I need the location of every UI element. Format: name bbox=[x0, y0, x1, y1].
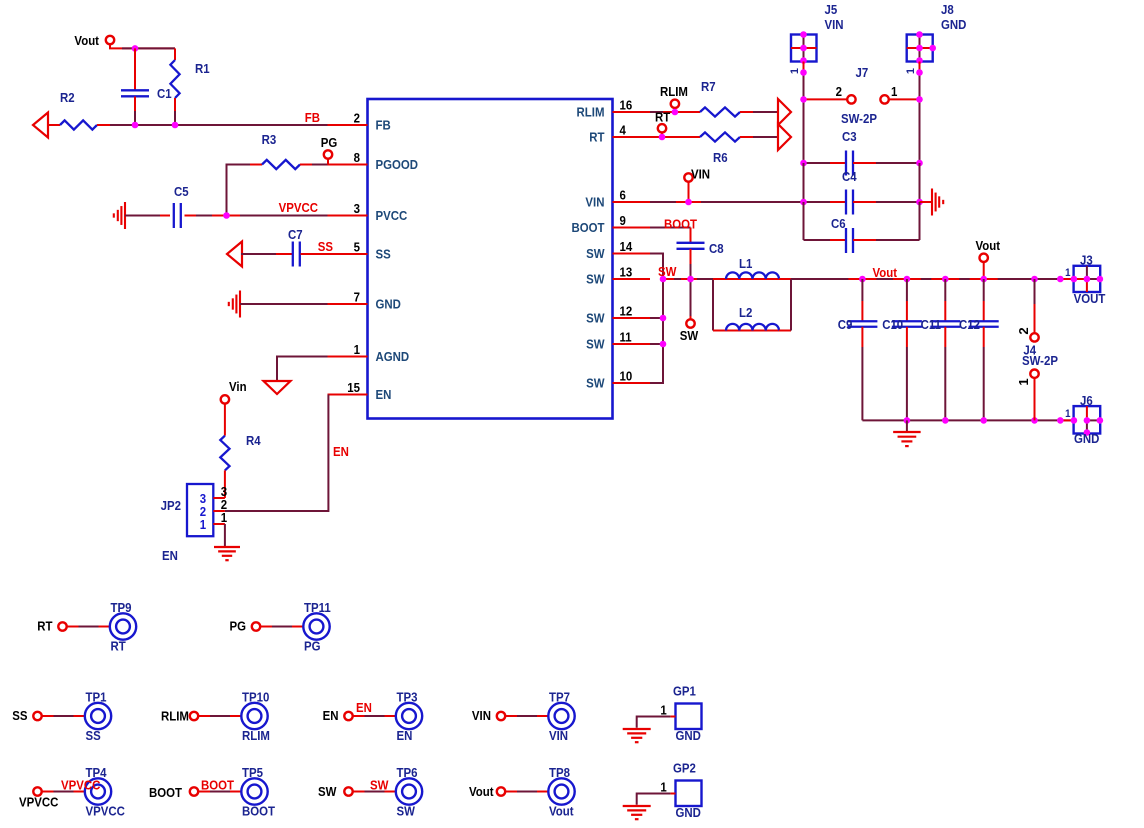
svg-text:SS: SS bbox=[86, 728, 101, 743]
off-page connector FB left bbox=[33, 113, 48, 138]
svg-text:VIN: VIN bbox=[472, 708, 491, 723]
wire gnd to C5 bbox=[125, 215, 160, 217]
svg-text:SW: SW bbox=[658, 264, 677, 279]
svg-text:GND: GND bbox=[1074, 431, 1100, 446]
capacitor C8 bbox=[677, 242, 705, 244]
node bus J4 bbox=[1031, 417, 1038, 424]
pin 5 SS stub bbox=[328, 253, 368, 255]
connector JP2 body bbox=[187, 484, 213, 536]
svg-text:TP7: TP7 bbox=[549, 690, 570, 705]
svg-text:SW: SW bbox=[586, 272, 605, 287]
svg-text:J3: J3 bbox=[1080, 253, 1093, 268]
wire J8 down bbox=[919, 62, 921, 71]
svg-text:SW: SW bbox=[680, 328, 699, 343]
svg-text:VIN: VIN bbox=[824, 17, 843, 32]
JP2 pin 3 bbox=[213, 497, 225, 499]
svg-text:JP2: JP2 bbox=[161, 498, 182, 513]
svg-text:C3: C3 bbox=[842, 129, 857, 144]
ground GP2 bbox=[623, 805, 651, 807]
JP2 pin 2 bbox=[213, 510, 225, 512]
pin 12 SW stub bbox=[613, 317, 651, 319]
JP2 pin 1 bbox=[213, 523, 225, 525]
svg-text:11: 11 bbox=[620, 330, 632, 345]
svg-text:R7: R7 bbox=[701, 79, 716, 94]
svg-text:C11: C11 bbox=[921, 317, 942, 332]
svg-text:RT: RT bbox=[111, 639, 127, 654]
svg-text:SW: SW bbox=[318, 784, 337, 799]
node bus C12 bbox=[980, 417, 987, 424]
pin 9 BOOT stub bbox=[613, 227, 651, 229]
node bus C11 bbox=[942, 417, 949, 424]
test point TP9 bbox=[110, 613, 136, 639]
test point TP10 bbox=[241, 703, 267, 729]
test point TP6 bbox=[396, 778, 422, 804]
svg-text:VIN: VIN bbox=[691, 167, 710, 182]
svg-text:1: 1 bbox=[1065, 409, 1071, 421]
svg-text:Vin: Vin bbox=[229, 379, 247, 394]
svg-text:PGOOD: PGOOD bbox=[375, 157, 418, 172]
svg-text:RLIM: RLIM bbox=[161, 709, 189, 724]
svg-text:8: 8 bbox=[354, 150, 361, 165]
node SW pin13 bbox=[660, 276, 667, 283]
svg-text:VPVCC: VPVCC bbox=[279, 200, 319, 215]
wire J5 col C3-C4 bbox=[803, 163, 805, 202]
jumper J4 pin 2 bbox=[1034, 279, 1036, 304]
svg-text:1: 1 bbox=[200, 517, 207, 532]
off-page connector R6 arrow bbox=[778, 124, 791, 150]
svg-text:GND: GND bbox=[675, 728, 701, 743]
test point TP8 bbox=[548, 778, 574, 804]
node VIN junction bbox=[685, 199, 692, 206]
jumper J7 pin 1 bbox=[880, 95, 888, 103]
svg-text:SS: SS bbox=[375, 247, 390, 262]
svg-text:TP5: TP5 bbox=[242, 765, 263, 780]
svg-text:PG: PG bbox=[304, 639, 321, 654]
svg-text:J6: J6 bbox=[1080, 393, 1093, 408]
terminal PG bbox=[324, 150, 332, 158]
wire to TP7 bbox=[505, 715, 517, 717]
resistor R2 bbox=[48, 124, 60, 126]
svg-text:BOOT: BOOT bbox=[201, 778, 235, 793]
svg-text:EN: EN bbox=[333, 444, 349, 459]
svg-text:15: 15 bbox=[347, 380, 360, 395]
svg-text:C4: C4 bbox=[842, 169, 857, 184]
header GP1 bbox=[676, 704, 702, 730]
svg-text:VOUT: VOUT bbox=[1074, 291, 1106, 306]
terminal Vout right bbox=[980, 254, 988, 262]
wire AGND bbox=[277, 357, 328, 382]
svg-text:C12: C12 bbox=[959, 317, 980, 332]
svg-text:C8: C8 bbox=[709, 241, 724, 256]
pin 14 SW stub bbox=[613, 253, 651, 255]
capacitor C7 bbox=[276, 253, 292, 255]
svg-text:Vout: Vout bbox=[975, 238, 1000, 253]
svg-text:EN: EN bbox=[397, 728, 413, 743]
wire JP2 pin1 to ground bbox=[224, 524, 226, 547]
svg-text:SW-2P: SW-2P bbox=[841, 111, 877, 126]
node rail J3 stub bbox=[1057, 276, 1064, 283]
svg-text:SW: SW bbox=[586, 337, 605, 352]
svg-text:RT: RT bbox=[37, 619, 53, 634]
svg-text:RLIM: RLIM bbox=[242, 728, 270, 743]
IC U1 body bbox=[368, 99, 613, 419]
resistor R4 bbox=[224, 403, 226, 435]
wire SW net pin13 bbox=[663, 278, 674, 280]
node SW C8 bbox=[687, 276, 694, 283]
capacitor C11 bbox=[944, 279, 946, 301]
svg-text:SS: SS bbox=[12, 708, 27, 723]
svg-text:GND: GND bbox=[375, 297, 401, 312]
svg-text:VIN: VIN bbox=[585, 195, 604, 210]
node FB junction C1 bbox=[132, 122, 139, 129]
svg-text:12: 12 bbox=[620, 304, 633, 319]
wire to C7 bbox=[241, 253, 276, 255]
resistor R3 bbox=[250, 164, 262, 166]
node rail J4 bbox=[1031, 276, 1038, 283]
node C1 top bbox=[132, 45, 139, 52]
node rail C9 bbox=[859, 276, 866, 283]
capacitor C6 bbox=[803, 202, 805, 240]
svg-text:1: 1 bbox=[660, 780, 667, 795]
terminal RLIM bbox=[671, 100, 679, 108]
header J5 bbox=[791, 35, 817, 62]
node bus C10 bbox=[904, 417, 911, 424]
wire to TP1 bbox=[42, 715, 54, 717]
svg-text:4: 4 bbox=[620, 123, 627, 138]
svg-text:C6: C6 bbox=[831, 216, 846, 231]
svg-text:R6: R6 bbox=[713, 150, 728, 165]
wire to TP11 bbox=[260, 626, 272, 628]
svg-text:J7: J7 bbox=[856, 65, 869, 80]
svg-text:SW: SW bbox=[370, 778, 389, 793]
wire EN net bbox=[328, 394, 367, 396]
wire GP1 to ground bbox=[670, 716, 675, 718]
svg-text:2: 2 bbox=[1016, 327, 1031, 334]
ground GP1 bbox=[623, 728, 651, 730]
pin 15 EN stub bbox=[328, 394, 368, 396]
svg-text:BOOT: BOOT bbox=[149, 785, 183, 800]
pin 3 PVCC stub bbox=[328, 215, 368, 217]
node VPVCC junction bbox=[223, 212, 230, 219]
wire L bracket left bbox=[712, 279, 714, 331]
capacitor C12 bbox=[983, 279, 985, 301]
off-page connector SS bbox=[227, 242, 242, 267]
header J8 bbox=[907, 35, 933, 62]
svg-text:BOOT: BOOT bbox=[242, 804, 276, 819]
wire Vout rail bbox=[791, 278, 1074, 280]
svg-text:13: 13 bbox=[620, 265, 633, 280]
svg-text:1: 1 bbox=[221, 510, 228, 525]
svg-text:1: 1 bbox=[1065, 268, 1071, 280]
pin 8 PGOOD stub bbox=[328, 164, 368, 166]
svg-text:5: 5 bbox=[354, 240, 361, 255]
wire BOOT bbox=[650, 227, 691, 229]
resistor R6 bbox=[700, 132, 740, 141]
test point TP3 bbox=[396, 703, 422, 729]
wire GP2 to ground bbox=[670, 793, 675, 795]
capacitor C10 bbox=[906, 279, 908, 301]
node rail C12 bbox=[980, 276, 987, 283]
svg-text:C9: C9 bbox=[838, 317, 853, 332]
pin 6 VIN stub bbox=[613, 201, 651, 203]
svg-text:SW: SW bbox=[586, 311, 605, 326]
wire Vout to C1/R1 bbox=[110, 44, 175, 48]
svg-text:EN: EN bbox=[323, 708, 339, 723]
svg-text:R3: R3 bbox=[262, 132, 277, 147]
inductor L1 bbox=[713, 278, 726, 280]
svg-text:C7: C7 bbox=[288, 227, 303, 242]
svg-text:1: 1 bbox=[891, 84, 898, 99]
test point TP4 bbox=[85, 778, 111, 804]
node rail C11 bbox=[942, 276, 949, 283]
svg-text:16: 16 bbox=[620, 98, 633, 113]
svg-text:R2: R2 bbox=[60, 90, 75, 105]
test point TP11 bbox=[303, 613, 329, 639]
header J6 bbox=[1074, 406, 1101, 433]
terminal RT bbox=[658, 124, 666, 132]
ground at bus bbox=[906, 420, 908, 432]
svg-text:SW-2P: SW-2P bbox=[1022, 353, 1058, 368]
svg-text:2: 2 bbox=[836, 84, 843, 99]
svg-text:1: 1 bbox=[905, 68, 917, 74]
terminal SW below C8 bbox=[690, 279, 692, 316]
svg-text:C5: C5 bbox=[174, 184, 189, 199]
svg-text:9: 9 bbox=[620, 213, 627, 228]
svg-text:FB: FB bbox=[375, 118, 390, 133]
wire PGOOD to R3 bbox=[227, 165, 251, 216]
svg-text:FB: FB bbox=[305, 110, 320, 125]
test point TP1 bbox=[85, 703, 111, 729]
wire RT bbox=[650, 136, 700, 138]
svg-text:L1: L1 bbox=[739, 256, 753, 271]
svg-text:14: 14 bbox=[620, 239, 633, 254]
off-page connector R7 arrow bbox=[778, 99, 791, 125]
svg-text:TP11: TP11 bbox=[304, 600, 331, 615]
svg-text:1: 1 bbox=[660, 703, 667, 718]
svg-text:SW: SW bbox=[586, 246, 605, 261]
svg-text:R4: R4 bbox=[246, 433, 261, 448]
pin 10 SW stub bbox=[613, 382, 651, 384]
ground JP2 bbox=[214, 546, 240, 548]
svg-text:AGND: AGND bbox=[375, 349, 409, 364]
wire to TP6 bbox=[353, 791, 365, 793]
resistor R1 bbox=[174, 48, 176, 60]
svg-text:SS: SS bbox=[318, 239, 333, 254]
svg-text:PG: PG bbox=[229, 619, 246, 634]
svg-text:RT: RT bbox=[655, 110, 671, 125]
svg-text:PVCC: PVCC bbox=[375, 208, 407, 223]
svg-text:TP10: TP10 bbox=[242, 690, 270, 705]
ground right of C4 bbox=[920, 201, 933, 203]
ground at GND pin bbox=[239, 291, 241, 318]
node SW pin11 bbox=[660, 341, 667, 348]
svg-text:C1: C1 bbox=[157, 86, 172, 101]
svg-text:7: 7 bbox=[354, 290, 361, 305]
svg-text:EN: EN bbox=[162, 548, 178, 563]
svg-text:J5: J5 bbox=[824, 2, 837, 17]
wire to TP9 bbox=[67, 626, 79, 628]
test point TP5 bbox=[241, 778, 267, 804]
wire RLIM bbox=[650, 111, 663, 113]
pin 2 FB stub bbox=[328, 124, 368, 126]
terminal Vin bbox=[221, 395, 229, 403]
terminal VIN bbox=[684, 173, 692, 181]
svg-text:1: 1 bbox=[1016, 378, 1031, 385]
svg-text:VPVCC: VPVCC bbox=[61, 778, 101, 793]
svg-text:PG: PG bbox=[321, 135, 338, 150]
svg-text:TP8: TP8 bbox=[549, 765, 570, 780]
wire GND bbox=[240, 303, 328, 305]
svg-text:1: 1 bbox=[789, 68, 801, 74]
wire L bracket right bbox=[790, 279, 792, 331]
node FB junction R1 bbox=[172, 122, 179, 129]
node bus J6 stub bbox=[1057, 417, 1064, 424]
svg-text:3: 3 bbox=[354, 201, 361, 216]
svg-text:GND: GND bbox=[675, 805, 701, 820]
wire GND bus bbox=[862, 419, 1073, 421]
svg-text:2: 2 bbox=[354, 111, 361, 126]
svg-text:1: 1 bbox=[354, 342, 361, 357]
svg-text:RLIM: RLIM bbox=[577, 105, 605, 120]
capacitor C3 bbox=[804, 162, 831, 164]
capacitor C4 bbox=[804, 201, 831, 203]
svg-text:EN: EN bbox=[356, 700, 372, 715]
capacitor C5 bbox=[160, 215, 170, 217]
node SW pin12 bbox=[660, 315, 667, 322]
wire FB net bbox=[110, 124, 328, 126]
pin 4 RT stub bbox=[613, 136, 651, 138]
wire J5 down bbox=[803, 62, 805, 71]
svg-text:TP9: TP9 bbox=[111, 600, 132, 615]
svg-text:TP1: TP1 bbox=[86, 690, 107, 705]
svg-text:TP6: TP6 bbox=[397, 765, 418, 780]
wire VIN pin6 bbox=[650, 201, 676, 203]
svg-text:Vout: Vout bbox=[873, 265, 898, 280]
svg-text:GP2: GP2 bbox=[673, 761, 696, 776]
test point TP7 bbox=[548, 703, 574, 729]
capacitor C9 bbox=[861, 279, 863, 301]
wire to TP5 bbox=[198, 791, 210, 793]
svg-text:BOOT: BOOT bbox=[571, 220, 605, 235]
wire to TP8 bbox=[505, 791, 517, 793]
svg-text:6: 6 bbox=[620, 188, 627, 203]
svg-text:RLIM: RLIM bbox=[660, 84, 688, 99]
svg-text:VIN: VIN bbox=[549, 728, 568, 743]
wire SW vertical bus bbox=[650, 254, 663, 384]
svg-text:Vout: Vout bbox=[549, 804, 574, 819]
jumper J7 pin 2 bbox=[847, 95, 855, 103]
inductor L2 bbox=[713, 330, 726, 332]
svg-text:EN: EN bbox=[375, 387, 391, 402]
node rail C10 bbox=[904, 276, 911, 283]
svg-text:C10: C10 bbox=[882, 317, 903, 332]
pin 11 SW stub bbox=[613, 343, 651, 345]
svg-text:R1: R1 bbox=[195, 61, 210, 76]
pin 16 RLIM stub bbox=[613, 111, 651, 113]
svg-text:BOOT: BOOT bbox=[664, 217, 698, 232]
svg-text:L2: L2 bbox=[739, 305, 753, 320]
wire to TP3 bbox=[353, 715, 365, 717]
terminal Vout bbox=[106, 36, 114, 44]
capacitor C1 bbox=[134, 48, 136, 90]
wire to TP10 bbox=[198, 715, 210, 717]
jumper J4 pin 1 bbox=[1030, 370, 1038, 378]
pin 13 SW stub bbox=[613, 278, 651, 280]
resistor R7 bbox=[700, 107, 740, 116]
pin 1 AGND stub bbox=[328, 356, 368, 358]
wire to TP4 bbox=[42, 791, 54, 793]
svg-text:TP3: TP3 bbox=[397, 690, 418, 705]
svg-text:Vout: Vout bbox=[469, 784, 494, 799]
svg-text:VPVCC: VPVCC bbox=[19, 795, 59, 810]
ground at C5 bbox=[124, 202, 126, 229]
svg-text:VPVCC: VPVCC bbox=[86, 804, 126, 819]
svg-text:RT: RT bbox=[589, 130, 605, 145]
svg-text:GND: GND bbox=[941, 17, 967, 32]
header GP2 bbox=[676, 781, 702, 807]
pin 7 GND stub bbox=[328, 303, 368, 305]
svg-text:SW: SW bbox=[586, 376, 605, 391]
svg-text:10: 10 bbox=[620, 369, 633, 384]
ground AGND triangle bbox=[264, 381, 291, 394]
svg-text:GP1: GP1 bbox=[673, 684, 696, 699]
header J3 bbox=[1074, 266, 1101, 292]
svg-text:Vout: Vout bbox=[74, 33, 99, 48]
svg-text:SW: SW bbox=[397, 804, 416, 819]
wire VPVCC net bbox=[196, 215, 328, 217]
svg-text:J8: J8 bbox=[941, 2, 954, 17]
